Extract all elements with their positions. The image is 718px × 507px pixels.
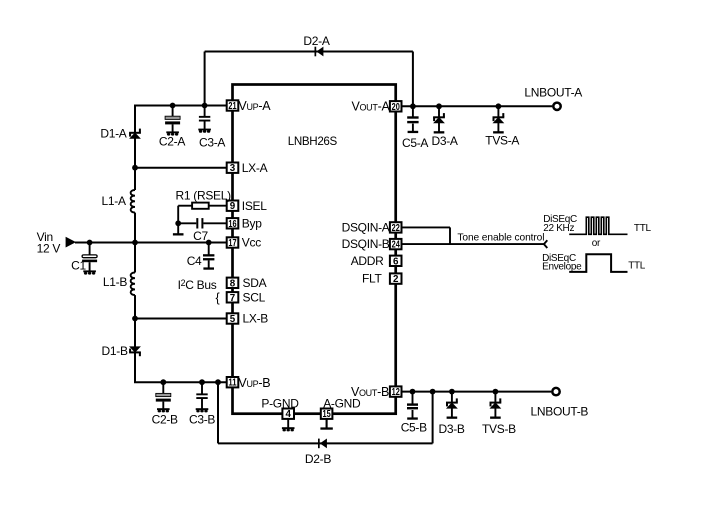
svg-text:3: 3	[230, 163, 236, 174]
svg-text:Tone enable control: Tone enable control	[457, 232, 544, 243]
svg-text:2: 2	[393, 274, 399, 285]
svg-text:20: 20	[392, 102, 401, 113]
svg-text:D1-A: D1-A	[100, 127, 126, 141]
svg-text:17: 17	[228, 238, 237, 249]
svg-text:DSQIN-B: DSQIN-B	[342, 237, 390, 251]
svg-text:TTL: TTL	[634, 223, 652, 234]
svg-text:LX-A: LX-A	[242, 161, 268, 175]
svg-text:Envelope: Envelope	[542, 262, 582, 273]
svg-text:SCL: SCL	[243, 291, 266, 305]
svg-text:ADDR: ADDR	[351, 254, 384, 268]
svg-text:5: 5	[230, 314, 236, 325]
svg-text:16: 16	[228, 219, 237, 230]
svg-text:Byp: Byp	[242, 217, 262, 231]
svg-text:7: 7	[230, 293, 236, 304]
svg-text:TTL: TTL	[628, 261, 646, 272]
svg-text:11: 11	[228, 378, 237, 389]
svg-text:C3-A: C3-A	[199, 135, 225, 149]
svg-text:22 KHz: 22 KHz	[543, 223, 574, 234]
svg-text:R1 (RSEL): R1 (RSEL)	[176, 188, 232, 202]
svg-text:SDA: SDA	[243, 276, 267, 290]
svg-text:DSQIN-A: DSQIN-A	[342, 220, 390, 234]
svg-text:C5-A: C5-A	[402, 136, 428, 150]
svg-text:ISEL: ISEL	[242, 199, 267, 213]
svg-text:C2-B: C2-B	[152, 413, 178, 427]
svg-text:4: 4	[285, 409, 291, 420]
svg-text:D2-A: D2-A	[303, 34, 329, 48]
svg-text:D3-A: D3-A	[432, 134, 458, 148]
svg-text:6: 6	[393, 256, 399, 267]
svg-text:LX-B: LX-B	[243, 312, 269, 326]
svg-text:TVS-A: TVS-A	[485, 134, 519, 148]
svg-text:12: 12	[392, 387, 401, 398]
svg-text:24: 24	[392, 240, 401, 251]
svg-text:Vcc: Vcc	[242, 236, 261, 250]
svg-text:C3-B: C3-B	[189, 413, 215, 427]
svg-text:{: {	[216, 291, 220, 305]
svg-text:15: 15	[323, 409, 332, 420]
svg-text:D2-B: D2-B	[305, 452, 331, 466]
svg-text:9: 9	[230, 201, 236, 212]
svg-text:VOUT-A: VOUT-A	[351, 99, 390, 113]
svg-text:VUP-A: VUP-A	[238, 99, 271, 113]
svg-text:L1-B: L1-B	[103, 275, 127, 289]
svg-text:D3-B: D3-B	[439, 422, 465, 436]
svg-text:12 V: 12 V	[37, 241, 61, 255]
svg-text:TVS-B: TVS-B	[482, 422, 516, 436]
svg-text:C4: C4	[187, 254, 202, 268]
svg-text:LNBOUT-B: LNBOUT-B	[531, 404, 589, 418]
svg-text:P-GND: P-GND	[261, 396, 299, 410]
svg-text:VUP-B: VUP-B	[238, 376, 270, 390]
svg-text:21: 21	[228, 101, 237, 112]
svg-text:C1: C1	[71, 259, 86, 273]
svg-text:C2-A: C2-A	[159, 134, 185, 148]
svg-text:C5-B: C5-B	[401, 421, 427, 435]
svg-text:A-GND: A-GND	[323, 397, 361, 411]
svg-text:LNBH26S: LNBH26S	[288, 135, 338, 148]
svg-text:L1-A: L1-A	[102, 194, 126, 208]
svg-text:C7: C7	[193, 229, 208, 243]
svg-text:22: 22	[392, 223, 401, 234]
svg-text:LNBOUT-A: LNBOUT-A	[524, 86, 582, 100]
svg-text:or: or	[592, 238, 601, 249]
svg-text:FLT: FLT	[362, 271, 383, 285]
svg-text:D1-B: D1-B	[102, 344, 128, 358]
svg-text:8: 8	[230, 278, 236, 289]
